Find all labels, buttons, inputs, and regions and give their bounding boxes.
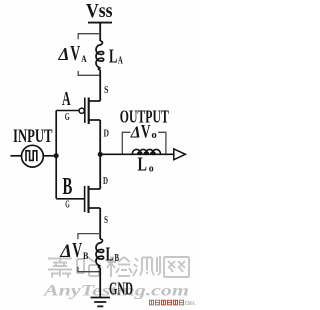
wire coil LA to transistor A source <box>99 70 101 101</box>
svg-text:B: B <box>83 251 89 262</box>
wire source B to coil LB <box>99 208 101 239</box>
svg-text:Δ: Δ <box>58 44 70 64</box>
wire Vss to coil LA <box>99 23 101 41</box>
transistor Q-B gate wire <box>56 198 84 200</box>
svg-text:V: V <box>72 240 82 262</box>
transistor Q-B gate bar <box>84 186 86 212</box>
output wire <box>100 153 173 155</box>
svg-text:Δ: Δ <box>59 242 71 262</box>
svg-text:o: o <box>149 162 154 174</box>
input wire right stub <box>43 155 56 157</box>
svg-text:o: o <box>151 129 157 141</box>
svg-text:GND: GND <box>109 278 133 298</box>
svg-text:Vss: Vss <box>86 0 113 22</box>
svg-text:Δ: Δ <box>130 122 141 141</box>
transistor Q-A gate bar <box>84 98 86 124</box>
svg-text:S: S <box>104 214 108 226</box>
watermark hanzi 5 (wang) <box>164 257 189 277</box>
svg-text:D: D <box>104 128 110 140</box>
svg-text:G: G <box>65 199 70 211</box>
svg-text:A: A <box>81 54 86 65</box>
svg-text:A: A <box>118 55 123 66</box>
watermark hanzi 1 (jia) <box>48 257 72 278</box>
input bus wire <box>55 111 57 199</box>
transistor Q-B channel bar <box>87 186 89 213</box>
watermark hanzi 4 (ce) <box>133 256 160 276</box>
transistor Q-A drain lead <box>89 119 101 121</box>
watermark hanzi 2 (yu) <box>77 257 100 276</box>
svg-text:L: L <box>109 46 117 68</box>
svg-text:L: L <box>106 244 114 266</box>
svg-text:V: V <box>141 121 151 142</box>
bracket dVo <box>122 132 166 153</box>
inductor Lo coil <box>132 149 160 154</box>
svg-text:INPUT: INPUT <box>13 126 53 147</box>
bracket dVB <box>78 234 100 272</box>
ground symbol <box>91 298 111 307</box>
svg-text:B: B <box>115 253 120 264</box>
transistor Q-A gate wire <box>56 110 79 112</box>
Vss supply bar <box>88 22 112 24</box>
svg-text:B: B <box>63 173 73 200</box>
transistor Q-B source lead <box>89 207 101 209</box>
svg-text:EMA: EMA <box>185 301 195 307</box>
watermark hanzi 3 (jian) <box>107 257 132 278</box>
svg-text:D: D <box>103 175 108 187</box>
svg-text:V: V <box>70 43 80 65</box>
wire coil LB to ground <box>99 268 101 297</box>
output junction dot <box>98 152 103 157</box>
transistor Q-A gate bubble <box>79 108 84 113</box>
input source square wave <box>25 151 37 161</box>
svg-text:S: S <box>104 84 109 96</box>
input junction dot <box>54 153 59 158</box>
input source circle <box>22 145 44 167</box>
transistor Q-A source lead <box>89 100 101 102</box>
wire drain A to drain B (through output node) <box>99 120 101 189</box>
inductor LB coil <box>96 239 104 268</box>
transistor Q-B drain lead <box>89 188 101 190</box>
watermark red caption bottom right <box>150 300 184 305</box>
bracket dVA <box>78 34 100 76</box>
svg-text:A: A <box>62 88 71 110</box>
svg-text:L: L <box>138 154 148 176</box>
inductor LA coil <box>96 41 104 70</box>
transistor Q-A channel bar <box>88 98 90 125</box>
output arrow <box>174 149 186 160</box>
svg-text:G: G <box>65 111 70 123</box>
input wire left stub <box>10 155 21 157</box>
